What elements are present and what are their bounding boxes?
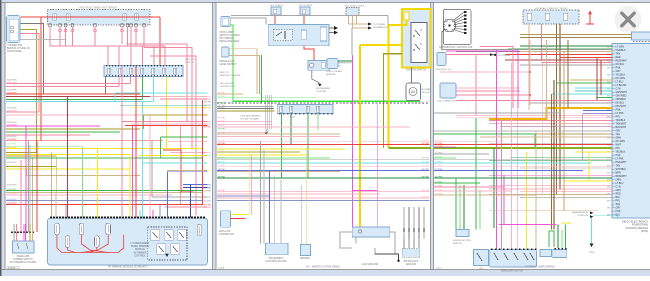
wire PNK crank1 (456, 114, 640, 116)
wire PNK branch right 3 (150, 56, 196, 215)
wire YEL bb5 (306, 149, 308, 245)
svg-text:ICM CONNECTOR: ICM CONNECTOR (437, 101, 456, 103)
wire GRY edge9v (151, 140, 153, 197)
wire BLU p3v13 (582, 114, 584, 161)
wire PNK p2h27 (217, 193, 380, 195)
wire TAN p3 fuse drop (528, 24, 530, 110)
headlamp switch contacts (494, 253, 498, 260)
inline connector on fuse drop 6 (121, 29, 124, 32)
wire GRN pb3 (230, 25, 420, 101)
wire YEL thick vert B (388, 25, 390, 148)
svg-text:39 PNK: 39 PNK (218, 140, 226, 142)
wire GRY p3 bus b (434, 153, 489, 155)
fuse block (hot at all times) (48, 10, 151, 26)
wire GRY blower feed (411, 68, 413, 83)
gauges fuse A element (274, 9, 277, 14)
wire PNK fuse drop 5 (94, 27, 96, 46)
bulkhead strip inner connectors (280, 106, 283, 112)
wire BLU p1 path (168, 172, 208, 218)
module lamp L3 (79, 223, 84, 235)
fuse F2 symbol (67, 14, 71, 21)
wire GRN micro d3 (565, 225, 567, 249)
svg-text:DATA LINK: DATA LINK (219, 230, 231, 233)
wire PCM in 30 (565, 180, 612, 182)
wire GRY p2h4 (217, 106, 273, 108)
wire CYN p3v15 (591, 216, 593, 247)
junction dot pink B (529, 94, 531, 96)
wire RED ignition feed (21, 16, 42, 18)
wire GRY p3 low3 (434, 158, 612, 160)
wire TAN p3 mid4 (480, 136, 612, 138)
svg-text:39 PNK: 39 PNK (218, 158, 226, 160)
fuel pump circle (358, 230, 361, 233)
wire BLU p3 low6 (434, 170, 583, 172)
wire KHK low8a (6, 166, 56, 168)
wire PNK strip out b (130, 77, 132, 84)
module switch S5 blade (173, 246, 178, 252)
blower resistor box (266, 243, 289, 255)
svg-text:39 PNK: 39 PNK (218, 176, 226, 178)
stop lamp switch box (221, 17, 231, 27)
svg-text:POSITION: POSITION (578, 215, 589, 217)
wire RED module crossB (82, 235, 109, 253)
svg-text:BRAKE FLUID: BRAKE FLUID (220, 60, 235, 63)
svg-text:39 PNK: 39 PNK (435, 169, 443, 171)
svg-text:S208 PNK: S208 PNK (7, 144, 18, 146)
svg-text:39 PNK: 39 PNK (435, 189, 443, 191)
wire MAG mod9 (152, 210, 154, 217)
turn signal switch box (474, 250, 489, 266)
wire TAN p3v8 (535, 131, 537, 250)
svg-text:MASTER CYLINDER: MASTER CYLINDER (220, 74, 241, 77)
svg-text:W/ DIMMER: W/ DIMMER (134, 252, 147, 254)
svg-text:EXTERIOR LAMPS WIRING: EXTERIOR LAMPS WIRING (525, 265, 555, 268)
wire YEL p1 row155 (140, 154, 208, 156)
wire PCM in 21 (500, 126, 612, 128)
wire CYN mod8 (139, 210, 141, 217)
ground dot panel2 (397, 260, 399, 262)
module lamp L6 filament (199, 226, 201, 234)
wire PCM in 15 (456, 100, 612, 102)
wire MAG p2 vert (251, 155, 253, 215)
wire YEL mod4 (97, 210, 99, 217)
svg-text:39 PNK: 39 PNK (421, 140, 429, 142)
svg-text:DISTRIBUTOR / IGNITION COIL: DISTRIBUTOR / IGNITION COIL (439, 47, 473, 49)
wiper motor box (456, 230, 469, 237)
svg-text:39 PNK: 39 PNK (421, 169, 429, 171)
wire PNK bus7 (6, 111, 39, 113)
wire KHK extra4 (144, 114, 208, 116)
wire PNK edge4 (131, 123, 208, 125)
wire PCM in 32 (489, 188, 612, 190)
fuse F2 symbol element (67, 14, 69, 20)
wire DGRN ac2 (338, 60, 352, 62)
inline connector on fuse drop 3 (64, 29, 67, 32)
wire YEL extra3 (130, 107, 208, 109)
module lamp L2 filament (67, 238, 69, 246)
relay box bottom (301, 245, 311, 256)
wire PCM in 10 (556, 82, 612, 84)
wire PCM in 4 (505, 54, 612, 56)
wire TAN sb2 (229, 54, 259, 56)
svg-text:S208 PNK: S208 PNK (7, 162, 18, 164)
wire GRY cm out (329, 27, 334, 29)
wire PCM in 20 (489, 123, 612, 125)
module switch S1 frame (151, 230, 160, 241)
dimmer switch box (13, 241, 35, 253)
wire SLT mod10 (159, 205, 161, 217)
wire RED bus3 (6, 93, 140, 95)
svg-text:S208 PNK: S208 PNK (7, 189, 18, 191)
svg-text:39 PNK: 39 PNK (435, 152, 443, 154)
svg-text:CLUSTER: CLUSTER (316, 91, 327, 93)
left dark edge bar (0, 0, 2, 276)
wire GRY p2 tall1 (260, 141, 262, 243)
svg-text:SIGNAL: SIGNAL (540, 48, 549, 51)
wire TAN p3 bus g (434, 194, 536, 196)
wire PCM in 27 (489, 159, 612, 161)
svg-text:39 PNK: 39 PNK (218, 143, 226, 145)
bottom right vertical wires (403, 207, 405, 238)
svg-text:S208 PNK: S208 PNK (7, 136, 18, 138)
wire GRN p3 low7 (434, 177, 612, 179)
wire PNK cluster5 (456, 94, 530, 96)
svg-text:39 PNK: 39 PNK (203, 191, 211, 193)
wire GRN bc2 (290, 114, 292, 146)
svg-text:39 PNK: 39 PNK (203, 204, 211, 206)
wire GRY strip out (105, 77, 107, 94)
wire PCM in 11 (575, 87, 612, 89)
wire GRN p3 bus d (434, 182, 480, 184)
svg-text:39 PNK: 39 PNK (218, 92, 226, 94)
wire PCM in 9 (570, 79, 612, 81)
inner white box B (301, 30, 306, 39)
svg-text:39 PNK: 39 PNK (218, 190, 226, 192)
green loop wire (549, 231, 554, 247)
svg-text:STOP LAMP: STOP LAMP (220, 31, 234, 34)
inline connector on fuse drop 2 (59, 29, 62, 32)
wire PCM in 23 (505, 133, 612, 135)
wire PNK p3 low1 (434, 141, 504, 143)
ignition switch pins (11, 26, 14, 29)
wire PNK edge10 (165, 206, 208, 208)
svg-text:39 PNK: 39 PNK (218, 121, 226, 123)
wire PNK dim2 (16, 232, 18, 241)
svg-text:LH SIDE OF DASH: LH SIDE OF DASH (240, 117, 259, 120)
wire LPNK low11 (6, 194, 172, 196)
wire OLV bus10 (6, 128, 140, 130)
wire DRED vert g (67, 97, 69, 218)
wire YEL thick vert A (359, 45, 361, 228)
wire LGRN mod3 (82, 216, 84, 218)
ignition module inner relay (411, 23, 427, 63)
svg-text:39 PNK: 39 PNK (435, 193, 443, 195)
micro relay B pins (555, 248, 557, 250)
wire YEL dlc (231, 207, 250, 215)
svg-text:LOW COOLANT: LOW COOLANT (326, 70, 343, 73)
svg-text:LEVEL SWITCH: LEVEL SWITCH (220, 64, 237, 66)
wire TAN uh1 (348, 16, 350, 25)
wire VIO mod6 (132, 210, 134, 217)
wire DKYEL ignition (21, 30, 37, 153)
wire PCM in 35 (520, 197, 612, 199)
wire PNK p3v3 (501, 121, 503, 250)
svg-text:39 PNK: 39 PNK (435, 145, 443, 147)
wire KHK vert f (55, 156, 57, 218)
bulkhead connector strip (277, 105, 333, 114)
wire GRY thin ignition (21, 39, 66, 41)
wire GRY vert c2 (29, 145, 31, 232)
svg-text:HEADLAMP SWITCH: HEADLAMP SWITCH (501, 270, 524, 273)
wire PCM in 13 (552, 93, 612, 95)
wire KHK dim5 (29, 224, 31, 241)
svg-text:HEADLAMP: HEADLAMP (17, 255, 30, 258)
module switch S5 frame (171, 244, 180, 255)
wire ORN thick pcm (489, 108, 612, 119)
inner relay pin dots (413, 35, 415, 37)
wire TAN p3v9 (542, 52, 544, 195)
svg-text:TRANSMISSION: TRANSMISSION (571, 211, 588, 214)
wire MAG dim4 (25, 232, 27, 241)
svg-text:PANEL DIMMING: PANEL DIMMING (131, 245, 149, 248)
wire RED p3 v2 (600, 60, 602, 95)
junction dot pink A (529, 71, 531, 73)
svg-text:39 PNK: 39 PNK (203, 96, 211, 98)
wire BLU p2h25 (217, 195, 269, 197)
svg-text:PART OF: PART OF (220, 71, 230, 74)
svg-text:DISTRIBUTION: DISTRIBUTION (373, 27, 389, 29)
wire TAN p3 low8 (489, 210, 598, 212)
module lamp L5 filament (107, 225, 109, 233)
wire GRN bc3 (307, 114, 309, 179)
wire GRY ignition (21, 24, 44, 95)
inline connector on fuse drop 5 (94, 29, 97, 32)
wire RED ignition feed long (41, 16, 160, 18)
module switch S3 frame (177, 230, 186, 241)
svg-text:IGNITION COIL: IGNITION COIL (436, 69, 452, 71)
wire PNK edge5 (170, 152, 208, 154)
PCM pin rows (612, 46, 615, 48)
headlamp switch pins top (491, 248, 493, 250)
micro relay A (540, 250, 552, 257)
wire BLU edge7 (183, 184, 208, 186)
wire YEL dlc up (248, 149, 250, 208)
fuse F3 symbol (123, 14, 127, 21)
module lamp L3 filament (81, 225, 83, 233)
wire GRN extra6v (159, 137, 161, 158)
module switch S2 frame (164, 230, 173, 241)
wire RED drop A (40, 17, 42, 141)
wire PCM in 8 (520, 64, 612, 66)
wire RED gf3 (303, 15, 305, 25)
wire PNK vert a (20, 160, 22, 232)
wire RED low1 (6, 140, 163, 142)
wire LGRN p3g2 (459, 185, 461, 230)
wire MAG bus9 (6, 125, 100, 127)
wire GRY C100 upper segment (351, 28, 353, 55)
wire LPNK bus8 (6, 114, 196, 116)
wire BLK gnd h (375, 253, 399, 255)
svg-text:39 PNK: 39 PNK (203, 153, 211, 155)
wire PNK fuse drop 10 (143, 27, 145, 48)
svg-text:39 PNK: 39 PNK (421, 161, 429, 163)
low coolant sensor box (327, 59, 338, 69)
wire SLT p2h26 (217, 200, 430, 202)
module lamp L1 filament (56, 225, 58, 233)
wire GRY p2 tall2 (263, 150, 265, 243)
panel3 fuse box dashed (523, 10, 579, 24)
wire PCM in 5 (560, 57, 612, 59)
svg-text:39 PNK: 39 PNK (203, 108, 211, 110)
AC clutch coil circle (310, 63, 314, 67)
wire GRN p3g4 (475, 118, 477, 230)
wire PCM in 25 (575, 151, 612, 153)
wire YEL p2h23 (217, 154, 307, 156)
svg-text:DISTRIBUTION: DISTRIBUTION (220, 86, 236, 88)
wire TAN p2h10 (217, 133, 340, 135)
wire LPNK cluster4 (440, 71, 530, 73)
svg-text:MODULE: MODULE (135, 249, 145, 251)
wire PCM in 28 (520, 167, 612, 169)
wire PNK fuse drop 4 (72, 27, 74, 46)
wire TAN p2h24 (217, 171, 340, 173)
svg-text:39 PNK: 39 PNK (203, 102, 211, 104)
wire RED module crossC (68, 247, 75, 252)
svg-text:GROUND: GROUND (406, 264, 417, 266)
wire MAG p3 low9 (499, 224, 557, 226)
yellow fuse inside (404, 12, 409, 20)
C100 wire bundle (265, 95, 267, 129)
wire YELGRN thick p3 (434, 147, 612, 149)
wire RED drop B (159, 17, 161, 66)
arrow pink left (493, 54, 497, 57)
gauges fuse box B (300, 7, 310, 15)
wire GRY p2h13 (217, 158, 430, 160)
wire YEL p3v7 (526, 152, 528, 250)
svg-text:WITH BRAKE: WITH BRAKE (220, 37, 235, 40)
wire GRY p3 mid2 (434, 130, 612, 132)
wire PNK p3 bus f (434, 190, 512, 192)
wire PNK p2h11 (217, 141, 430, 143)
wire YEL low5 (6, 153, 130, 155)
module connector dash row (50, 217, 52, 219)
inner white box C (320, 27, 326, 41)
wire PNK vert o (149, 115, 151, 218)
fuse strip internal fuses (108, 68, 111, 74)
svg-text:S208 PNK: S208 PNK (7, 203, 18, 205)
svg-text:S208 PNK: S208 PNK (7, 111, 18, 113)
svg-text:39 PNK: 39 PNK (203, 207, 211, 209)
panel1 corner tag (7, 266, 19, 269)
wire KHK low4 (6, 151, 37, 153)
wire PNK p1 row141 (168, 141, 208, 143)
svg-text:39 PNK: 39 PNK (218, 132, 226, 134)
svg-text:INSTRUMENT: INSTRUMENT (316, 88, 331, 90)
wire PCM in 12 (575, 90, 612, 92)
wire RED low13 (6, 203, 203, 205)
wire TAN uh merge2 (353, 27, 369, 29)
svg-text:A/C - HEATER SYSTEM WIRING: A/C - HEATER SYSTEM WIRING (306, 265, 340, 268)
module lamp L4 filament (96, 238, 98, 246)
wire DBRN p3 fuse drop4 (559, 24, 561, 190)
wire LGRN p2h22 (217, 157, 330, 159)
wire GRN bus5 (6, 99, 143, 101)
svg-text:S208 PNK: S208 PNK (7, 147, 18, 149)
wire KHK into small box b (520, 37, 632, 39)
wire PNK p3 bus a (434, 146, 456, 148)
wire PCM in 33 (520, 191, 612, 193)
svg-text:S208 PNK: S208 PNK (7, 125, 18, 127)
inline connector on fuse drop 9 (135, 29, 138, 32)
wire GRN p3g3 (463, 185, 465, 230)
fuse F3 symbol element (123, 14, 125, 20)
wire PNK p3 bus e (434, 186, 504, 188)
splice pack pins (403, 238, 405, 248)
wire RED dlc2 (231, 218, 246, 220)
arrow tan B (368, 27, 372, 30)
ignition switch inner connector (9, 19, 18, 41)
wire GRY fp frame3 (375, 232, 395, 254)
wire GRN low7 (6, 157, 203, 159)
module lamp L5 (106, 223, 111, 235)
svg-text:39 PNK: 39 PNK (218, 165, 226, 167)
wire CYN p2h14 (217, 162, 430, 164)
wire LGRN low2 (6, 146, 83, 148)
ignition switch module box (7, 16, 21, 43)
module lamp L2 (65, 236, 70, 248)
fuel pump prime box (352, 227, 390, 237)
fuse strip top pin row (106, 65, 107, 67)
wire GRN vert h (82, 147, 84, 218)
svg-text:39 PNK: 39 PNK (218, 96, 226, 98)
close button circle (615, 6, 642, 33)
wire DBRN p3v11 (553, 80, 555, 230)
wire PNK vert j (121, 66, 123, 218)
module lamp L4 (95, 236, 100, 248)
micro relay B (553, 250, 567, 258)
wire PNK p2h8 (217, 126, 410, 128)
svg-text:DASH PANEL: DASH PANEL (7, 50, 23, 53)
svg-text:39 PNK: 39 PNK (203, 127, 211, 129)
bulkhead strip pins (279, 113, 280, 115)
PCM module box (612, 44, 650, 219)
svg-text:(PCM): (PCM) (641, 230, 648, 233)
svg-text:S208 PNK: S208 PNK (7, 82, 18, 84)
wire PNK p2h6 (217, 120, 272, 122)
wire PCM in 29 (489, 174, 612, 176)
headlamp switch assembly (489, 250, 537, 268)
wire SLT low12 (6, 200, 203, 202)
wire PNK crank3 (456, 87, 520, 89)
AC clutch relay box (308, 60, 330, 70)
svg-text:39 PNK: 39 PNK (218, 161, 226, 163)
svg-text:IGNITION SWITCH: IGNITION SWITCH (406, 70, 426, 72)
wire KHK extra4v (143, 115, 145, 129)
wire RED p1 right (202, 100, 204, 204)
svg-text:INSTRUMENT: INSTRUMENT (268, 258, 284, 260)
module ground arrow (165, 254, 169, 257)
wire YEL p3 low10 (562, 222, 572, 224)
wire GRN strip out (142, 77, 144, 100)
wire CYN edge6 (143, 155, 208, 157)
svg-text:I/P DIMMING MODULE SCHEMATIC: I/P DIMMING MODULE SCHEMATIC (108, 265, 148, 268)
wire PCM in 24 (489, 143, 612, 145)
distributor rotor center (449, 25, 451, 27)
wire TAN low10 (6, 192, 203, 194)
wire RED module crossD (90, 247, 97, 252)
arrow junction right (334, 26, 338, 30)
wire PNK bus1 (6, 83, 131, 85)
